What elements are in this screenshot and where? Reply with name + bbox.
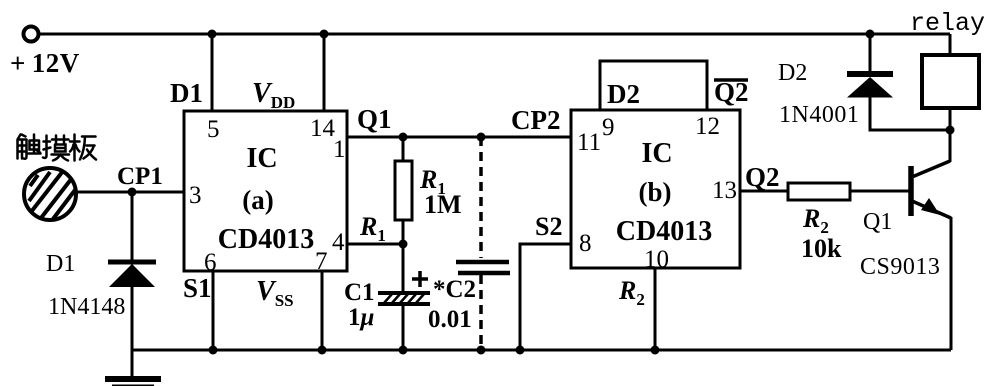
node CP1 junction bbox=[128, 188, 137, 197]
ground bbox=[105, 376, 161, 382]
wire D2-Q2bar feedback loop pins 9-12 bbox=[600, 61, 707, 110]
C1 polarity plus sign bbox=[412, 271, 428, 287]
svg-text:14: 14 bbox=[310, 115, 336, 142]
wire D2 down and to collector node bbox=[870, 95, 950, 130]
wire Q1 output to CP2 pin11 bbox=[347, 136, 571, 139]
svg-text:CS9013: CS9013 bbox=[860, 254, 940, 280]
wire pin6 S1 to bottom rail bbox=[212, 271, 215, 350]
svg-text:4: 4 bbox=[332, 229, 345, 256]
svg-text:CP1: CP1 bbox=[117, 163, 163, 190]
svg-text:Q1: Q1 bbox=[863, 209, 892, 235]
svg-text:+ 12V: + 12V bbox=[10, 48, 80, 78]
node junction pin6 rail bbox=[209, 346, 218, 355]
svg-text:R2: R2 bbox=[618, 276, 645, 309]
svg-text:1μ: 1μ bbox=[348, 304, 375, 331]
svg-text:CD4013: CD4013 bbox=[616, 216, 712, 247]
svg-text:Q2: Q2 bbox=[745, 162, 780, 192]
wire CP1 node down to D1 bbox=[131, 192, 134, 261]
svg-text:D1: D1 bbox=[46, 251, 75, 277]
svg-text:*C2: *C2 bbox=[433, 276, 476, 303]
wire pin10 to bottom rail bbox=[654, 268, 657, 350]
terminal +12V bbox=[24, 27, 39, 42]
svg-text:1N4001: 1N4001 bbox=[779, 102, 859, 128]
svg-text:relay: relay bbox=[910, 9, 985, 38]
wire pin5 to Vdd rail bbox=[211, 34, 214, 111]
wire R1 bottom lead bbox=[402, 220, 405, 292]
wire rail corner into relay bbox=[949, 34, 952, 55]
svg-text:VSS: VSS bbox=[256, 276, 294, 310]
svg-text:CP2: CP2 bbox=[511, 105, 561, 135]
node junction C1 rail bbox=[399, 346, 408, 355]
svg-text:7: 7 bbox=[315, 248, 328, 275]
resistor R2 10k bbox=[788, 183, 850, 200]
svg-text:9: 9 bbox=[602, 114, 615, 141]
svg-text:D2: D2 bbox=[778, 60, 807, 86]
resistor R1 1M bbox=[395, 161, 412, 220]
svg-text:12: 12 bbox=[695, 113, 720, 140]
node junction D2 on rail bbox=[866, 30, 875, 39]
svg-text:6: 6 bbox=[204, 249, 217, 276]
node junction C2 rail bbox=[477, 346, 486, 355]
svg-text:R2: R2 bbox=[802, 204, 829, 237]
svg-text:11: 11 bbox=[577, 129, 601, 156]
wire pin4 to R1 bottom bbox=[347, 243, 403, 246]
relay coil box bbox=[922, 55, 979, 108]
wire relay bottom to node bbox=[949, 108, 952, 130]
svg-text:1N4148: 1N4148 bbox=[48, 294, 125, 320]
wire pin14 to Vdd rail bbox=[323, 34, 326, 111]
svg-text:10k: 10k bbox=[801, 234, 842, 263]
svg-text:(b): (b) bbox=[639, 177, 672, 207]
svg-text:D1: D1 bbox=[170, 78, 203, 108]
node junction D2 relay collector bbox=[946, 126, 955, 135]
svg-text:Q1: Q1 bbox=[357, 104, 392, 134]
wire C1 to bottom rail bbox=[402, 304, 405, 350]
svg-text:D2: D2 bbox=[607, 79, 640, 109]
wire bottom rail bbox=[132, 349, 951, 352]
svg-text:10: 10 bbox=[644, 246, 669, 273]
node junction pin5 on rail bbox=[208, 30, 217, 39]
svg-text:S2: S2 bbox=[535, 212, 562, 241]
svg-text:VDD: VDD bbox=[252, 78, 295, 112]
svg-text:1M: 1M bbox=[424, 190, 462, 219]
svg-text:C1: C1 bbox=[344, 279, 375, 306]
transistor Q1 CS9013 bbox=[911, 130, 951, 350]
op-amp U2 IC(b) CD4013 box bbox=[571, 110, 740, 268]
svg-text:13: 13 bbox=[712, 177, 737, 204]
node junction R1 top bbox=[399, 133, 408, 142]
diode D2 1N4001 bbox=[847, 74, 893, 98]
svg-text:1: 1 bbox=[333, 136, 346, 163]
svg-text:0.01: 0.01 bbox=[428, 306, 472, 333]
wire pin7 Vss to bottom rail bbox=[321, 271, 324, 350]
wire S2 pin8 bbox=[520, 244, 571, 350]
svg-text:CD4013: CD4013 bbox=[218, 224, 314, 255]
touch pad electrode bbox=[24, 168, 76, 220]
svg-text:IC: IC bbox=[641, 138, 672, 169]
node junction S2 rail bbox=[516, 346, 525, 355]
svg-text:8: 8 bbox=[579, 230, 592, 257]
svg-text:R1: R1 bbox=[359, 212, 386, 245]
svg-text:(a): (a) bbox=[242, 185, 273, 215]
node junction pin14 on rail bbox=[320, 30, 329, 39]
wire rail to D2 bbox=[869, 34, 872, 72]
svg-text:5: 5 bbox=[207, 116, 220, 143]
op-amp U1 IC(a) CD4013 box bbox=[184, 111, 347, 271]
wire R2 to base bbox=[850, 190, 909, 193]
node junction C2 top bbox=[477, 133, 486, 142]
svg-text:3: 3 bbox=[189, 182, 202, 209]
wire pin3 touchpad to IC(a) bbox=[76, 191, 184, 194]
capacitor C1 1u electrolytic bbox=[378, 293, 430, 304]
node junction pin4 R1 C1 bbox=[399, 240, 408, 249]
svg-text:S1: S1 bbox=[183, 273, 212, 303]
wire R1 top lead bbox=[402, 137, 405, 161]
node junction pin10 rail bbox=[651, 346, 660, 355]
wire D1 to ground bbox=[131, 285, 134, 377]
diode D1 1N4148 bbox=[108, 262, 156, 287]
capacitor C2 0.01 with dashed leads bbox=[456, 137, 510, 350]
label touch pad chinese 触摸板 bbox=[18, 135, 97, 161]
wire top +12V rail bbox=[39, 33, 950, 36]
wire pin13 Q2 to R2 bbox=[740, 190, 788, 193]
svg-text:IC: IC bbox=[246, 143, 277, 174]
node junction pin7 rail bbox=[318, 346, 327, 355]
